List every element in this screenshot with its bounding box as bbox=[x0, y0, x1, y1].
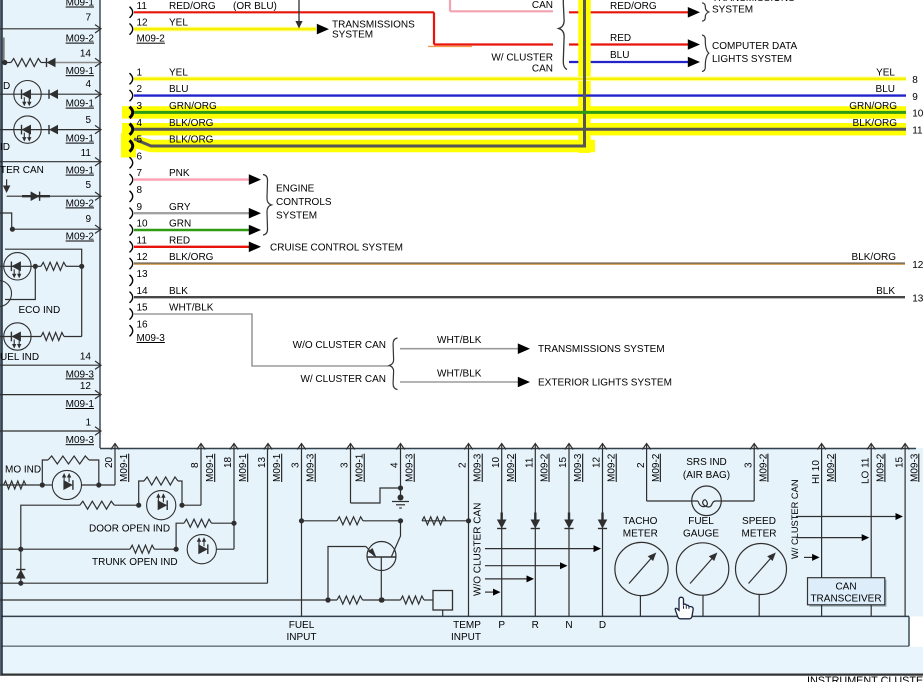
highlight band pin4 bbox=[122, 123, 906, 135]
node M09-2 top bbox=[137, 34, 166, 45]
svg-text:M09-2: M09-2 bbox=[540, 453, 551, 482]
svg-text:M09-3: M09-3 bbox=[909, 453, 920, 482]
label FUEL IND (cut) bbox=[0, 352, 39, 363]
svg-text:CAN: CAN bbox=[532, 63, 553, 74]
svg-text:LO 11: LO 11 bbox=[860, 457, 871, 484]
node M09-1 (top, cut) bbox=[66, 0, 95, 9]
pin 11 M09-2 (R) bbox=[525, 444, 551, 617]
svg-text:M09-1: M09-1 bbox=[272, 453, 283, 482]
svg-text:TRANSMISSIONS SYSTEM: TRANSMISSIONS SYSTEM bbox=[538, 344, 665, 355]
label RED p11 bbox=[169, 235, 190, 246]
pin 3 M09-2 srs bbox=[743, 444, 769, 502]
svg-text:SRS IND: SRS IND bbox=[686, 457, 727, 468]
LED ECO IND bbox=[4, 253, 31, 280]
wire PNK pin7 bbox=[134, 178, 250, 180]
mouse cursor bbox=[675, 597, 693, 619]
svg-text:9: 9 bbox=[912, 92, 918, 103]
svg-text:W/O CLUSTER CAN: W/O CLUSTER CAN bbox=[473, 503, 484, 596]
highlight band vertical bbox=[578, 0, 590, 153]
panel: connector label strip bbox=[0, 616, 909, 646]
label BLK/ORG p5 bbox=[169, 135, 214, 146]
svg-text:GAUGE: GAUGE bbox=[683, 529, 719, 540]
svg-text:M09-1: M09-1 bbox=[66, 66, 95, 77]
label TRANSMISSIONS SYSTEM bbox=[332, 20, 415, 41]
svg-text:M09-3: M09-3 bbox=[573, 453, 584, 482]
highlight band pin5 bbox=[121, 133, 595, 158]
pin 8 M09-1 bbox=[190, 444, 216, 506]
label MO IND bbox=[5, 464, 41, 475]
node M09-1 r3 bbox=[66, 99, 95, 110]
connector pin 3 (M09-3) bbox=[130, 107, 133, 118]
diode D bbox=[598, 513, 608, 529]
svg-text:11: 11 bbox=[137, 235, 148, 246]
svg-text:D: D bbox=[599, 620, 606, 631]
connector pin 1 (M09-3) bbox=[130, 73, 133, 84]
arrow can LO bbox=[796, 534, 869, 541]
LED indicator (cut name) r3 bbox=[14, 81, 41, 108]
svg-text:M09-1: M09-1 bbox=[66, 0, 95, 9]
connector pin 4 (M09-3) bbox=[130, 124, 133, 135]
pin 15 number bbox=[137, 303, 149, 314]
label ECO IND bbox=[19, 305, 61, 316]
svg-text:M09-2: M09-2 bbox=[66, 198, 95, 209]
svg-text:GRY: GRY bbox=[169, 202, 191, 213]
svg-text:11: 11 bbox=[525, 457, 536, 468]
svg-text:UEL IND: UEL IND bbox=[0, 352, 39, 363]
svg-text:RED: RED bbox=[610, 33, 631, 44]
connector pin 8 (M09-3) bbox=[130, 191, 133, 202]
net W/O CLUSTER CAN vert bbox=[473, 503, 484, 596]
pin 12 label bbox=[80, 381, 92, 392]
label RED right bbox=[610, 33, 631, 44]
svg-text:M09-2: M09-2 bbox=[607, 453, 618, 482]
pin 4 label bbox=[85, 79, 91, 90]
connector pin 12 (M09-2) bbox=[130, 24, 133, 35]
label FUEL bbox=[683, 516, 719, 540]
pin 3 number bbox=[137, 101, 143, 112]
svg-text:RED/ORG: RED/ORG bbox=[610, 1, 657, 12]
svg-text:13: 13 bbox=[912, 293, 923, 304]
svg-text:2: 2 bbox=[458, 462, 469, 468]
pin 3 M09-1 gnd bbox=[340, 444, 401, 504]
pin 10 M09-2 (P) bbox=[491, 444, 517, 617]
junction eco bbox=[33, 264, 38, 269]
svg-text:EXTERIOR LIGHTS SYSTEM: EXTERIOR LIGHTS SYSTEM bbox=[538, 378, 672, 389]
label P bbox=[498, 620, 505, 631]
wire drop into pin 5 row bbox=[3, 179, 11, 193]
svg-text:BLK/ORG: BLK/ORG bbox=[852, 252, 897, 263]
box CAN TRANSCEIVER bbox=[808, 578, 887, 617]
pin 6 number bbox=[137, 151, 143, 162]
brace wht/blk split bbox=[389, 338, 397, 390]
label YEL right bbox=[876, 67, 918, 86]
wire pin 9 row bbox=[0, 213, 101, 233]
svg-text:8: 8 bbox=[912, 75, 918, 86]
svg-text:11: 11 bbox=[137, 1, 148, 12]
pin 20 M09-1 bbox=[104, 444, 130, 486]
node M09-1 r5 bbox=[66, 166, 95, 177]
diode r3 bbox=[49, 89, 58, 99]
svg-text:3: 3 bbox=[291, 462, 302, 468]
svg-text:20: 20 bbox=[104, 456, 115, 468]
svg-text:M09-2: M09-2 bbox=[758, 453, 769, 482]
svg-text:COMPUTER DATA: COMPUTER DATA bbox=[712, 41, 798, 52]
connector pin 11 (M09-3) bbox=[130, 241, 133, 252]
svg-text:(OR BLU): (OR BLU) bbox=[233, 1, 277, 12]
resistor trunk bbox=[130, 545, 154, 553]
wire door loop bbox=[139, 481, 182, 505]
pin 18 M09-1 bbox=[223, 444, 249, 550]
label WHT/BLK b2 bbox=[437, 368, 482, 379]
svg-text:W/ CLUSTER CAN: W/ CLUSTER CAN bbox=[790, 479, 800, 559]
panel: cluster bottom panel bbox=[0, 448, 923, 616]
svg-text:4: 4 bbox=[137, 118, 143, 129]
connector pin 12 (M09-3) bbox=[130, 258, 133, 269]
connector pin 15 (M09-3) bbox=[130, 308, 133, 319]
svg-text:M09-3: M09-3 bbox=[306, 453, 317, 482]
svg-text:BLU: BLU bbox=[169, 84, 188, 95]
svg-text:BLK/ORG: BLK/ORG bbox=[169, 135, 214, 146]
wire memo loop bbox=[42, 460, 99, 485]
label BLK/ORG p4 bbox=[169, 118, 214, 129]
svg-text:DOOR OPEN IND: DOOR OPEN IND bbox=[89, 524, 170, 535]
resistor door bbox=[80, 501, 115, 509]
wire drop arrow bbox=[295, 0, 302, 29]
label TRUNK OPEN IND bbox=[92, 557, 178, 568]
pin 7 label bbox=[85, 13, 91, 24]
label ...ID IND (cut) bbox=[0, 142, 10, 153]
junction ft1 bbox=[325, 597, 330, 602]
wire GRN/ORG pin3 bbox=[134, 111, 906, 114]
resistor trunk loop bbox=[184, 519, 212, 527]
svg-text:RED: RED bbox=[169, 235, 190, 246]
pin 5 number bbox=[137, 135, 143, 146]
pin 14 label bbox=[80, 49, 92, 60]
svg-text:2: 2 bbox=[636, 462, 647, 468]
svg-text:3: 3 bbox=[137, 101, 143, 112]
pin 12 number bbox=[137, 252, 149, 263]
connector pin 13 (M09-3) bbox=[130, 275, 133, 286]
wire BLK/ORG riser bbox=[134, 0, 585, 146]
svg-text:ECO IND: ECO IND bbox=[19, 305, 61, 316]
svg-text:MO IND: MO IND bbox=[5, 464, 41, 475]
resistor mid2 bbox=[422, 517, 446, 525]
wire WHT/BLK branch1 bbox=[400, 348, 518, 350]
arrow bus P bbox=[485, 589, 501, 596]
node M09-1 r4 bbox=[66, 134, 95, 145]
junction trunk edge bbox=[18, 547, 23, 552]
resistor mid1 bbox=[337, 517, 363, 525]
label GRN/ORG p3 bbox=[169, 101, 217, 112]
ground bbox=[392, 495, 409, 509]
wire pin 11 row bbox=[0, 158, 101, 166]
arrow ccs bbox=[249, 242, 261, 253]
svg-text:7: 7 bbox=[85, 13, 91, 24]
wire PNK stub bbox=[450, 0, 553, 11]
wire RED pin11 bbox=[134, 246, 250, 248]
svg-text:14: 14 bbox=[80, 49, 92, 60]
node M09-3 r10 bbox=[66, 435, 95, 446]
wire GRY pin9 bbox=[134, 212, 250, 214]
svg-text:YEL: YEL bbox=[169, 18, 188, 29]
junction base bbox=[325, 597, 330, 602]
resistor ft1 bbox=[337, 596, 363, 604]
pin 3 M09-3 fuel bbox=[291, 444, 317, 617]
svg-text:M09-2: M09-2 bbox=[506, 453, 517, 482]
svg-text:CAN: CAN bbox=[532, 0, 553, 11]
label BLU right bbox=[876, 84, 919, 103]
svg-text:N: N bbox=[565, 620, 572, 631]
svg-text:8: 8 bbox=[137, 185, 143, 196]
svg-text:ID: ID bbox=[0, 142, 10, 153]
brace cluster-can bbox=[559, 0, 567, 70]
junction memo L bbox=[40, 482, 45, 487]
arrow ecs 1 bbox=[249, 174, 261, 185]
gauge TACHO METER bbox=[615, 542, 668, 616]
svg-text:14: 14 bbox=[80, 352, 92, 363]
pin 12 M09-2 (D) bbox=[592, 444, 618, 617]
pin 15 M09-3 bbox=[894, 444, 920, 617]
svg-text:M09-1: M09-1 bbox=[66, 166, 95, 177]
svg-text:PNK: PNK bbox=[169, 168, 190, 179]
svg-text:M09-2: M09-2 bbox=[875, 453, 886, 482]
arrow computer data 2 bbox=[688, 57, 700, 68]
svg-text:LIGHTS SYSTEM: LIGHTS SYSTEM bbox=[712, 54, 792, 65]
svg-text:M09-3: M09-3 bbox=[473, 453, 484, 482]
pin 11 number bbox=[137, 235, 148, 246]
wire WHT/BLK branch2 bbox=[400, 381, 518, 383]
svg-text:CRUISE CONTROL SYSTEM: CRUISE CONTROL SYSTEM bbox=[270, 242, 403, 253]
label CRUISE CONTROL SYSTEM bbox=[270, 242, 403, 253]
arrow b1 bbox=[518, 343, 530, 354]
pin 13 number bbox=[137, 269, 149, 280]
connector pin 6 (M09-3) bbox=[130, 157, 133, 168]
junction emitter bbox=[379, 597, 384, 602]
junction lower bbox=[18, 581, 23, 586]
svg-text:1: 1 bbox=[85, 418, 91, 429]
diode up branch bbox=[16, 570, 26, 579]
LED DOOR OPEN IND bbox=[147, 491, 176, 520]
pin 5 lower label bbox=[85, 180, 91, 191]
svg-text:10: 10 bbox=[491, 456, 502, 468]
arrow b2 bbox=[518, 377, 530, 388]
junction trunk loop R bbox=[231, 521, 236, 526]
wire trunk loop bbox=[176, 523, 234, 549]
label (OR BLU) bbox=[233, 1, 277, 12]
svg-text:M09-1: M09-1 bbox=[66, 134, 95, 145]
svg-text:FUEL: FUEL bbox=[289, 620, 315, 631]
net ...TER CAN (cut) bbox=[0, 165, 44, 176]
pin 5 label bbox=[85, 115, 91, 126]
svg-text:5: 5 bbox=[137, 135, 143, 146]
resistor memo bbox=[4, 481, 26, 489]
pin 9 number bbox=[137, 202, 143, 213]
svg-text:METER: METER bbox=[742, 529, 777, 540]
arrow bus R bbox=[485, 575, 534, 582]
connector pin 14 (M09-3) bbox=[130, 292, 133, 303]
component box temp bbox=[433, 591, 453, 617]
connector pin 11 (M09-2) bbox=[130, 7, 133, 18]
pin 2 number bbox=[137, 84, 143, 95]
wire trunk row bbox=[0, 548, 234, 550]
junction eco right bbox=[79, 264, 84, 269]
label DOOR OPEN IND bbox=[89, 524, 170, 535]
label FUEL INPUT bbox=[287, 620, 317, 643]
pin 10 number bbox=[137, 219, 149, 230]
svg-text:M09-2: M09-2 bbox=[66, 232, 95, 243]
label W/O CLUSTER CAN bbox=[293, 340, 386, 351]
wire YEL pin1 bbox=[134, 77, 906, 82]
connector pin 2 (M09-3) bbox=[130, 90, 133, 101]
resistor ft2 bbox=[401, 596, 424, 604]
svg-text:15: 15 bbox=[558, 456, 569, 468]
diode R bbox=[531, 513, 541, 529]
wire pin 5 (lower) with diode bbox=[7, 191, 101, 201]
svg-text:M09-1: M09-1 bbox=[205, 453, 216, 482]
label CAN (cut) bbox=[532, 0, 553, 11]
diode P bbox=[497, 513, 507, 529]
wire fuel row bbox=[0, 336, 82, 338]
wire pin 12 row bbox=[0, 390, 101, 398]
label GRN/ORG right bbox=[849, 101, 923, 120]
svg-text:M09-1: M09-1 bbox=[66, 399, 95, 410]
label YEL p1 bbox=[169, 67, 188, 78]
wire BLK/ORG pin12 bbox=[134, 263, 905, 264]
svg-text:CONTROLS: CONTROLS bbox=[276, 197, 332, 208]
svg-text:BLK/ORG: BLK/ORG bbox=[169, 118, 214, 129]
pin 12 number bbox=[137, 18, 149, 29]
arrow ecs 3 bbox=[249, 225, 261, 236]
junction door L bbox=[136, 503, 141, 508]
svg-text:WHT/BLK: WHT/BLK bbox=[169, 303, 214, 314]
svg-text:14: 14 bbox=[137, 286, 149, 297]
wire eco branch bbox=[5, 266, 35, 299]
arrow computer data 1 bbox=[688, 39, 700, 50]
svg-text:11: 11 bbox=[81, 148, 92, 159]
lamp SRS bbox=[647, 486, 755, 516]
panel: cluster left panel bbox=[0, 0, 100, 448]
label BLK p14 bbox=[169, 286, 188, 297]
label BLK right p14 bbox=[876, 286, 923, 305]
wire riser overlay bbox=[583, 73, 586, 102]
wire memo to pin bbox=[82, 484, 116, 486]
label RED/ORG right bbox=[610, 1, 657, 12]
pin 7 number bbox=[137, 168, 143, 179]
svg-text:BLK: BLK bbox=[169, 286, 188, 297]
pin 14 lower label bbox=[80, 352, 92, 363]
brace t2 bbox=[702, 35, 709, 72]
svg-text:M09-1: M09-1 bbox=[119, 453, 130, 482]
arrow to transmissions bbox=[317, 24, 329, 35]
wire pin 1 row bbox=[0, 427, 101, 435]
junction gnd bbox=[398, 485, 403, 490]
arrow transmissions right bbox=[688, 7, 700, 18]
svg-text:9: 9 bbox=[137, 202, 143, 213]
svg-text:M09-3: M09-3 bbox=[405, 453, 416, 482]
label PNK bbox=[169, 168, 190, 179]
label YEL t bbox=[169, 18, 188, 29]
wire mid row bbox=[302, 520, 469, 522]
svg-text:M09-3: M09-3 bbox=[137, 333, 166, 344]
wire pin 7 to M09-2 bbox=[0, 25, 101, 33]
pin 13 M09-1 bbox=[257, 444, 283, 483]
pin 9 label bbox=[85, 214, 91, 225]
screen edge line bbox=[1, 0, 2, 675]
junction trunk L bbox=[174, 547, 179, 552]
svg-text:2: 2 bbox=[137, 84, 143, 95]
label ENGINE CONTROLS SYSTEM bbox=[276, 184, 332, 222]
wire fuel-temp row bbox=[0, 599, 433, 601]
net W/ CLUSTER CAN vert bbox=[790, 479, 800, 559]
resistor door loop bbox=[144, 477, 178, 485]
wire BLK pin14 bbox=[134, 296, 905, 298]
wire pin 5 row bbox=[0, 125, 101, 133]
wire GRN pin10 bbox=[134, 229, 250, 231]
label GRN bbox=[169, 219, 191, 230]
svg-text:11: 11 bbox=[912, 125, 923, 136]
wire BLU right bbox=[569, 61, 688, 63]
pin 11 number bbox=[137, 1, 148, 12]
pin LO 11 M09-2 bbox=[860, 444, 886, 578]
svg-text:P: P bbox=[498, 620, 505, 631]
diode r4 bbox=[49, 125, 58, 135]
svg-text:12: 12 bbox=[592, 456, 603, 468]
wire eco loop top bbox=[5, 249, 82, 336]
wire eco row bbox=[0, 265, 82, 267]
LED FUEL IND bbox=[4, 323, 31, 350]
svg-text:FUEL: FUEL bbox=[688, 516, 714, 527]
svg-text:GRN: GRN bbox=[169, 219, 191, 230]
svg-text:GRN/ORG: GRN/ORG bbox=[849, 101, 897, 112]
svg-text:YEL: YEL bbox=[876, 67, 895, 78]
svg-text:HI 10: HI 10 bbox=[811, 460, 822, 484]
label EXTERIOR LIGHTS SYSTEM b2 bbox=[538, 378, 672, 389]
svg-text:SYSTEM: SYSTEM bbox=[332, 30, 373, 41]
label SRS IND (AIR BAG) bbox=[683, 457, 730, 481]
resistor fuel bbox=[41, 333, 64, 341]
label BLU right bbox=[610, 50, 629, 61]
svg-text:M09-2: M09-2 bbox=[137, 34, 166, 45]
wire RED/ORG right bbox=[569, 11, 688, 13]
svg-text:7: 7 bbox=[137, 168, 143, 179]
arrow ecs 2 bbox=[249, 208, 261, 219]
resistor eco bbox=[41, 262, 66, 270]
svg-text:4: 4 bbox=[85, 79, 91, 90]
label W/ CLUSTER CAN 2 bbox=[300, 374, 386, 385]
label COMPUTER DATA LIGHTS SYSTEM bbox=[712, 41, 798, 65]
node M09-3 r8 bbox=[66, 369, 95, 380]
node M09-1 r2 bbox=[66, 66, 95, 77]
wire pin 14 row bbox=[0, 361, 101, 369]
svg-text:BLK: BLK bbox=[876, 286, 895, 297]
svg-text:15: 15 bbox=[137, 303, 149, 314]
wire diode branch bbox=[20, 549, 22, 583]
svg-text:9: 9 bbox=[85, 214, 91, 225]
label TRANSMISSIONS SYSTEM b1 bbox=[538, 344, 665, 355]
screen edge bar bbox=[3, 38, 5, 62]
node M09-2 bbox=[66, 34, 95, 45]
connector pin 7 (M09-3) bbox=[130, 174, 133, 185]
svg-text:3: 3 bbox=[340, 462, 351, 468]
svg-text:15: 15 bbox=[894, 456, 905, 468]
wire with resistor and diode (pin 14) bbox=[2, 58, 101, 68]
svg-text:BLU: BLU bbox=[610, 50, 629, 61]
gauge SPEED METER bbox=[736, 544, 787, 617]
svg-text:M09-1: M09-1 bbox=[355, 453, 366, 482]
diode N bbox=[564, 513, 574, 529]
svg-text:M09-3: M09-3 bbox=[66, 369, 95, 380]
connector pin 5 (M09-3) bbox=[130, 140, 133, 151]
